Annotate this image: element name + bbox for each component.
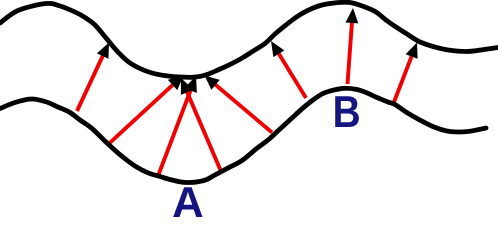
shaft of arrow 3, fan into upper-curve trough from below (crosses arrow 4) bbox=[158, 84, 193, 176]
head of arrow 7 above label B, up to upper peak bbox=[346, 8, 359, 23]
head of arrow 3, fan into upper-curve trough from below (crosses arrow 4) bbox=[184, 76, 197, 93]
shaft of arrow 6 mid-right, lower to upper curve bbox=[275, 48, 306, 98]
svg-text:B: B bbox=[333, 88, 361, 137]
shaft of arrow 8 right, lower to upper curve bbox=[394, 50, 414, 102]
head of arrow 4, fan into upper-curve trough from lower-right bbox=[181, 78, 194, 95]
head of arrow 5, from lower curve up-left into trough bbox=[205, 76, 220, 90]
shaft of arrow 2, fan into upper-curve trough from lower-left bbox=[108, 80, 178, 144]
shaft of arrow 7 above label B, up to upper peak bbox=[348, 16, 353, 84]
head of arrow 1 left, lower curve to upper curve bbox=[97, 43, 109, 59]
upper curve bbox=[0, 2, 498, 77]
head of arrow 2, fan into upper-curve trough from lower-left bbox=[168, 75, 184, 91]
shaft of arrow 5, from lower curve up-left into trough bbox=[211, 81, 272, 133]
shaft of arrow 4, fan into upper-curve trough from lower-right bbox=[184, 86, 221, 173]
svg-text:A: A bbox=[172, 178, 204, 217]
head of arrow 6 mid-right, lower to upper curve bbox=[271, 41, 284, 57]
head of arrow 8 right, lower to upper curve bbox=[406, 43, 418, 59]
lower curve bbox=[0, 88, 486, 182]
shaft of arrow 1 left, lower curve to upper curve bbox=[77, 50, 106, 111]
